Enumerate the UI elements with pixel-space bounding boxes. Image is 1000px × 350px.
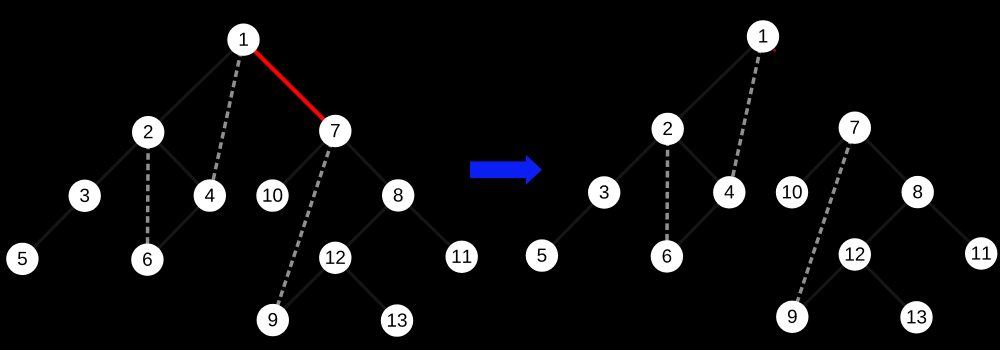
wire: right tree edge 12-9 (solid)	[792, 255, 855, 317]
wire: left tree edge 7-10 (solid)	[273, 131, 336, 196]
wire: left tree edge 7-8 (solid)	[335, 131, 398, 195]
node 7 (left tree)	[319, 115, 351, 147]
node 13 (right tree)	[900, 301, 932, 333]
wire: left tree edge 1-2 (solid)	[148, 40, 243, 133]
node 11 (left tree)	[446, 241, 478, 273]
node 9 (right tree)	[776, 301, 808, 333]
node 2 (right tree)	[652, 113, 684, 145]
node 12 (left tree)	[319, 242, 351, 274]
wire: right tree edge 7-10 (solid)	[792, 128, 855, 193]
wire: right tree edge 1-4 (dashed)	[729, 36, 763, 192]
arrow (blue, left-to-right transform)	[470, 155, 542, 185]
node 3 (right tree)	[588, 176, 620, 208]
node 11 (right tree)	[965, 237, 997, 269]
wire: right tree edge 8-11 (solid)	[918, 192, 982, 253]
wire: left tree edge 2-6 (dashed)	[146, 132, 150, 260]
wire: left tree edge 8-11 (solid)	[398, 195, 462, 256]
wire: left tree edge 8-12 (solid)	[335, 195, 398, 257]
node 12 (right tree)	[839, 238, 871, 270]
wire: left tree edge 12-9 (solid)	[273, 258, 336, 320]
node 6 (left tree)	[131, 244, 163, 276]
wire: right tree edge 4-6 (solid)	[667, 192, 729, 256]
node 13 (left tree)	[381, 304, 413, 336]
wire: left tree edge 2-3 (solid)	[85, 132, 149, 196]
wire: right tree edge 7-9 (dashed)	[792, 128, 855, 317]
wire: right tree edge 1-2 (solid)	[668, 36, 763, 128]
node 2 (left tree)	[132, 116, 164, 148]
node 4 (left tree)	[194, 179, 226, 211]
wire: right tree edge 2-3 (solid)	[604, 129, 668, 193]
wire: right tree edge 8-12 (solid)	[855, 192, 918, 254]
wire: left tree edge 1-4 (dashed)	[210, 40, 244, 196]
wire: left tree edge 7-9 (dashed)	[273, 131, 336, 320]
node 6 (right tree)	[651, 240, 683, 272]
node 1 (right tree)	[747, 20, 779, 52]
node 10 (left tree)	[256, 179, 288, 211]
wire: right tree edge 2-4 (solid)	[668, 129, 730, 192]
node 4 (right tree)	[713, 176, 745, 208]
node 1 (left tree)	[227, 24, 259, 56]
red speck artifact near right node 1	[773, 49, 776, 52]
wire: left tree edge 1-7 (red, highlighted)	[244, 40, 336, 131]
node 9 (left tree)	[257, 304, 289, 336]
wire: left tree edge 2-4 (solid)	[148, 132, 210, 195]
wire: left tree edge 4-6 (solid)	[147, 196, 209, 260]
node 5 (left tree)	[6, 243, 38, 275]
node 8 (right tree)	[902, 176, 934, 208]
wire: left tree edge 12-13 (solid)	[335, 258, 397, 321]
node 10 (right tree)	[776, 176, 808, 208]
wire: right tree edge 7-8 (solid)	[855, 128, 918, 192]
wire: left tree edge 3-5 (solid)	[22, 196, 84, 259]
node 7 (right tree)	[839, 112, 871, 144]
wire: right tree edge 3-5 (solid)	[542, 193, 604, 256]
wire: right tree edge 12-13 (solid)	[855, 255, 917, 318]
wire: right tree edge 2-6 (dashed)	[665, 129, 669, 257]
node 5 (right tree)	[526, 239, 558, 271]
node 3 (left tree)	[69, 180, 101, 212]
node 8 (left tree)	[382, 179, 414, 211]
